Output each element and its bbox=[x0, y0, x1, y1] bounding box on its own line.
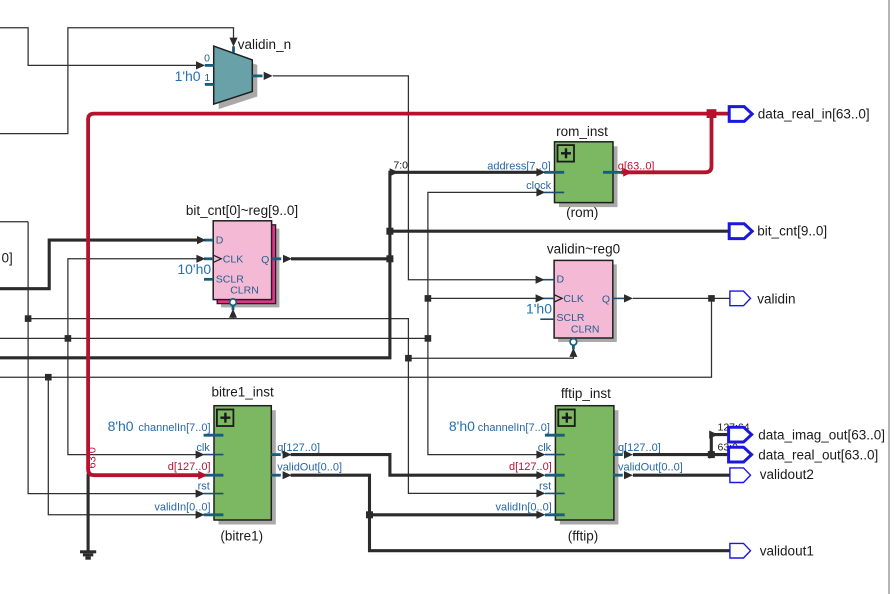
svg-text:channelIn[7..0]: channelIn[7..0] bbox=[138, 422, 210, 434]
wire net A (top-left to mux input 0) bbox=[0, 28, 197, 66]
pin validout2 bbox=[730, 468, 751, 483]
arrow into bitre1 validIn bbox=[196, 511, 205, 519]
page border right bbox=[888, 0, 890, 594]
arrow into validin~reg0 CLRN bbox=[569, 348, 577, 357]
svg-text:CLRN: CLRN bbox=[230, 285, 259, 297]
arrow into validin~reg0 CLK bbox=[536, 294, 545, 302]
arrow red out of rom q bbox=[623, 168, 632, 177]
mux input stub 0 bbox=[205, 64, 214, 67]
junction bus Q bbox=[386, 255, 393, 262]
arrow out of validin~reg0 Q bbox=[624, 294, 633, 302]
module fftip_inst bbox=[555, 386, 614, 544]
svg-text:(fftip): (fftip) bbox=[568, 528, 599, 543]
arrow into rom address bbox=[536, 168, 545, 176]
arrow out of fftip validOut bbox=[624, 471, 633, 479]
svg-text:(bitre1): (bitre1) bbox=[220, 528, 263, 543]
junction validin at pin bbox=[708, 295, 715, 302]
module bitre1_inst bbox=[211, 385, 274, 544]
svg-text:(rom): (rom) bbox=[566, 205, 598, 220]
arrow into validin~reg0 D bbox=[536, 276, 545, 284]
wire rst net: left box edge down to bitre1 rst bbox=[28, 222, 197, 494]
arrow out of bitre1 q bbox=[283, 451, 292, 459]
wire bus branch to data_imag_out bbox=[711, 435, 729, 455]
mux select stub bbox=[232, 46, 235, 52]
register bit_cnt[0]~reg[9..0] stacked copy bbox=[217, 225, 275, 304]
svg-text:rst: rst bbox=[198, 480, 210, 492]
arrow fanout 7:0 to rom address bbox=[390, 168, 399, 176]
module fftip_inst shadow bbox=[560, 410, 619, 524]
svg-text:0]: 0] bbox=[2, 251, 13, 266]
wire clk branch rom clock / fftip clk bbox=[428, 192, 539, 454]
svg-text:CLK: CLK bbox=[223, 254, 243, 266]
svg-text:10'h0: 10'h0 bbox=[177, 261, 211, 277]
svg-text:d[127..0]: d[127..0] bbox=[168, 461, 211, 473]
arrow red into bitre1 d bbox=[198, 471, 207, 480]
svg-text:8'h0: 8'h0 bbox=[108, 418, 134, 434]
register bit_cnt[0]~reg[9..0] bbox=[177, 203, 298, 300]
svg-text:validIn[0..0]: validIn[0..0] bbox=[496, 501, 552, 513]
wire clk branch validin~reg0 CLK bbox=[428, 297, 540, 299]
svg-text:Q: Q bbox=[602, 293, 610, 305]
svg-text:validIn[0..0]: validIn[0..0] bbox=[154, 501, 210, 513]
wire bus bitre1 q to fftip d bbox=[291, 455, 539, 476]
junction rst at x28 bbox=[25, 315, 32, 322]
svg-text:bit_cnt[0]~reg[9..0]: bit_cnt[0]~reg[9..0] bbox=[186, 203, 298, 218]
svg-text:Q: Q bbox=[261, 254, 269, 266]
pin validout1 bbox=[730, 543, 751, 558]
bitre1 port labels bbox=[108, 418, 342, 513]
svg-text:1'h0: 1'h0 bbox=[175, 68, 201, 84]
arrow into data_real_out bbox=[709, 451, 718, 459]
register bit_cnt[0]~reg[9..0] shadow bbox=[221, 229, 279, 308]
arrow out of bit_cnt Q bbox=[283, 255, 292, 263]
wire clk branch bit_cnt CLK / bitre1 clk bbox=[68, 259, 197, 455]
rom port stub q bbox=[603, 171, 623, 174]
pin data_imag_out[63..0] bbox=[729, 427, 752, 442]
junction validOut at x369 bbox=[366, 511, 373, 518]
svg-text:CLK: CLK bbox=[563, 293, 583, 305]
arrow into bitre1 clk bbox=[196, 451, 205, 459]
mux output stub bbox=[252, 75, 262, 78]
arrow into mux input 0 bbox=[196, 61, 205, 69]
arrow into mux select bbox=[229, 38, 237, 47]
fftip port stub validOut bbox=[613, 474, 623, 477]
wire rst branch to fftip rst bbox=[28, 319, 538, 494]
svg-text:validOut[0..0]: validOut[0..0] bbox=[618, 461, 683, 473]
wire validin feedback loop bbox=[0, 298, 712, 377]
bitre1 port stub q bbox=[271, 453, 281, 456]
svg-text:data_real_out[63..0]: data_real_out[63..0] bbox=[758, 447, 878, 462]
bitre1 port stub validOut bbox=[271, 474, 281, 477]
register bit_cnt port stub CLK bbox=[204, 257, 213, 260]
svg-text:bitre1_inst: bitre1_inst bbox=[211, 385, 274, 400]
mux input stub 1 (const 1'h0) bbox=[205, 83, 214, 86]
bitre1 port stub validIn bbox=[204, 513, 224, 516]
svg-text:0: 0 bbox=[204, 53, 210, 65]
wire bus bit_cnt D input from left edge bbox=[0, 240, 197, 289]
pin data_real_in[63..0] bbox=[729, 107, 752, 122]
register validin~reg0 port stub D bbox=[540, 279, 554, 281]
wire bus fftip q to data_real_out pin bbox=[633, 453, 730, 456]
bubble bit_cnt CLRN bbox=[230, 299, 237, 306]
wire bus to bit_cnt[9..0] pin bbox=[390, 230, 730, 233]
wire rst branch to validin~reg0 CLRN bbox=[408, 355, 573, 359]
junction red at data_real_in bbox=[707, 109, 717, 118]
wire mux select net bbox=[0, 28, 234, 134]
register validin~reg0 bbox=[526, 242, 620, 339]
arrow into fftip d bbox=[536, 471, 545, 479]
wire bus fftip validOut to validout2 pin bbox=[633, 474, 730, 477]
svg-text:validin: validin bbox=[757, 291, 795, 306]
arrow into fftip validIn bbox=[536, 511, 545, 519]
svg-text:SCLR: SCLR bbox=[557, 312, 585, 324]
arrow into bit_cnt CLRN bbox=[229, 309, 237, 318]
stem validin~reg0 CLRN bbox=[572, 345, 575, 349]
register bit_cnt port stub D bbox=[204, 239, 213, 242]
svg-text:1: 1 bbox=[204, 72, 210, 84]
wire ground net bbox=[87, 474, 90, 552]
cropped block at left edge (partial, label 0]) bbox=[0, 222, 28, 266]
wire bus bit_cnt Q output trunk bbox=[291, 257, 390, 260]
svg-text:CLRN: CLRN bbox=[571, 324, 600, 336]
svg-text:63:0: 63:0 bbox=[86, 447, 98, 468]
wire bus bitre1 validOut trunk bbox=[291, 475, 731, 551]
fftip port stub d bbox=[545, 474, 565, 477]
bitre1 port stub channelIn (const 8'h0) bbox=[204, 434, 224, 437]
svg-text:8'h0: 8'h0 bbox=[449, 418, 475, 434]
register validin~reg0 port stub CLK bbox=[540, 297, 554, 299]
fftip port stub clk bbox=[545, 454, 565, 456]
junction clk at x428 bbox=[425, 335, 432, 342]
stem bit_cnt CLRN bbox=[232, 306, 235, 311]
arrow out of fftip q bbox=[624, 451, 633, 459]
rom port stub clock bbox=[544, 191, 564, 193]
arrow out of mux output bbox=[264, 72, 273, 80]
svg-text:bit_cnt[9..0]: bit_cnt[9..0] bbox=[757, 224, 827, 239]
svg-text:data_imag_out[63..0]: data_imag_out[63..0] bbox=[758, 427, 885, 442]
fftip port stub q bbox=[613, 453, 623, 456]
wire clk net trunk from left edge bbox=[0, 337, 428, 339]
svg-text:validout1: validout1 bbox=[760, 544, 814, 559]
svg-text:rst: rst bbox=[539, 480, 551, 492]
register bit_cnt port stub SCLR (const 10'h0) bbox=[204, 278, 213, 281]
arrow into data_imag_out bbox=[709, 431, 718, 439]
svg-text:data_real_in[63..0]: data_real_in[63..0] bbox=[758, 106, 870, 121]
pin validin bbox=[730, 291, 751, 306]
svg-text:d[127..0]: d[127..0] bbox=[509, 461, 552, 473]
junction clk at validin CLK branch bbox=[425, 295, 432, 302]
svg-text:validout2: validout2 bbox=[760, 467, 814, 482]
rom port stub address bbox=[544, 171, 564, 174]
bubble validin~reg0 CLRN bbox=[570, 339, 577, 346]
svg-text:D: D bbox=[216, 234, 224, 246]
wire validin net: reg0 Q to validin pin bbox=[633, 297, 730, 299]
fftip port stub validIn bbox=[545, 513, 565, 516]
wire rst branch to bit_cnt CLRN bbox=[232, 316, 234, 319]
svg-text:rom_inst: rom_inst bbox=[556, 124, 608, 139]
ground symbol bbox=[80, 550, 96, 559]
module bitre1_inst shadow bbox=[219, 410, 276, 524]
arrow into rom clock bbox=[536, 188, 545, 196]
svg-text:fftip_inst: fftip_inst bbox=[561, 386, 611, 401]
junction fftip q bbox=[708, 451, 715, 458]
bitre1 port stub d bbox=[204, 474, 224, 477]
arrow into fftip clk bbox=[536, 451, 545, 459]
fftip port stub channelIn (const 8'h0) bbox=[545, 434, 565, 437]
junction rst/CLRN at x408 bbox=[405, 355, 412, 362]
pin data_real_out[63..0] bbox=[729, 447, 752, 462]
wire validin_n output to validin~reg0 D bbox=[273, 76, 539, 280]
svg-text:validin~reg0: validin~reg0 bbox=[547, 242, 620, 257]
arrow into bitre1 rst bbox=[196, 490, 205, 498]
fftip port stub rst bbox=[545, 492, 565, 494]
svg-text:validin_n: validin_n bbox=[238, 37, 291, 52]
svg-text:validOut[0..0]: validOut[0..0] bbox=[277, 461, 342, 473]
arrow into bit_cnt D bbox=[197, 236, 206, 244]
arrow into fftip rst bbox=[536, 489, 545, 497]
arrow out of bitre1 validOut bbox=[283, 471, 292, 479]
register validin~reg0 port stub SCLR (const 1'h0) bbox=[540, 318, 554, 320]
svg-text:1'h0: 1'h0 bbox=[526, 300, 552, 316]
arrow into bit_cnt CLK bbox=[196, 255, 205, 263]
wire validin branch to bitre1 validIn bbox=[48, 377, 197, 515]
svg-text:channelIn[7..0]: channelIn[7..0] bbox=[478, 422, 550, 434]
register validin~reg0 shadow bbox=[558, 264, 617, 342]
junction clk at x68 bbox=[65, 335, 72, 342]
junction bus pin branch bbox=[386, 228, 393, 235]
wire bus trunk vertical x390 bbox=[0, 172, 539, 357]
bitre1 port stub rst bbox=[204, 493, 224, 495]
svg-text:D: D bbox=[557, 274, 565, 286]
junction validin at x48 bbox=[45, 374, 52, 381]
bitre1 port stub clk bbox=[204, 454, 224, 456]
mux validin_n bbox=[214, 46, 253, 104]
wire red highlighted net rom q to data_real_in and bitre1 d bbox=[88, 114, 729, 476]
svg-text:clk: clk bbox=[538, 442, 552, 454]
rom_inst shadow bbox=[559, 146, 618, 207]
register validin~reg0 port stub Q bbox=[613, 297, 625, 299]
module rom_inst bbox=[555, 124, 614, 220]
register bit_cnt port stub Q bbox=[272, 257, 282, 260]
wire bus branch to fftip validIn bbox=[370, 513, 539, 516]
pin bit_cnt[9..0] bbox=[729, 224, 752, 239]
mux U validin_n shadow bbox=[219, 51, 258, 109]
fftip port labels bbox=[449, 418, 683, 513]
svg-text:7:0: 7:0 bbox=[393, 160, 408, 172]
